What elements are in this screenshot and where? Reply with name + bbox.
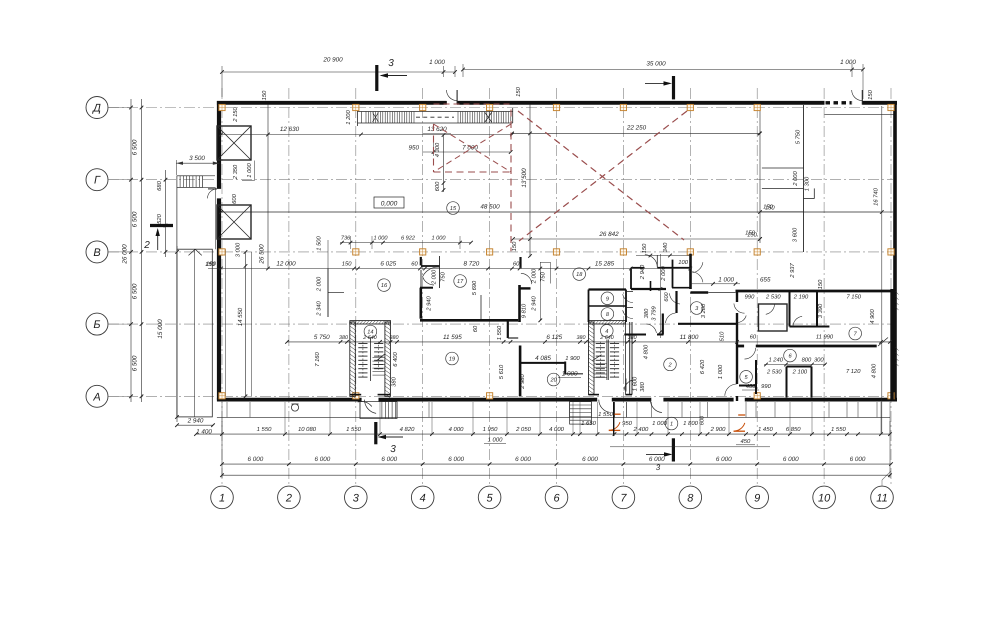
svg-text:450: 450 bbox=[740, 438, 751, 445]
apartment mid wall y346 bbox=[737, 345, 877, 348]
svg-text:3 500: 3 500 bbox=[189, 155, 205, 162]
dim 2 150 rotated bbox=[232, 106, 239, 122]
top stair / ramp band bbox=[358, 108, 513, 126]
column marker axis 7/Д bbox=[620, 104, 626, 110]
svg-text:4 300: 4 300 bbox=[434, 142, 441, 157]
grid axis 9 vertical dash-dot line bbox=[756, 88, 758, 486]
grid axis 4 vertical dash-dot line bbox=[422, 88, 424, 486]
dim 60 y268 a bbox=[411, 261, 418, 268]
svg-text:18: 18 bbox=[576, 272, 583, 278]
bottom wall bbox=[217, 398, 897, 402]
apartment partition x756 bbox=[739, 360, 756, 394]
dim 1 000 underlined porch bbox=[484, 437, 506, 444]
dim 13 620 underlined bbox=[423, 126, 451, 134]
dim 11 990 bbox=[816, 334, 834, 341]
vertical dim line x760 bbox=[758, 104, 762, 243]
dim 655 bbox=[760, 277, 771, 284]
partition x328 upper ext bbox=[327, 240, 329, 269]
dim 950 bbox=[409, 145, 420, 152]
dim 2 000 rotated hall bbox=[316, 276, 323, 292]
dim 2 940 rotated m1 bbox=[639, 264, 646, 280]
section 3 top-left arrow bbox=[380, 73, 408, 77]
svg-text:4 085: 4 085 bbox=[535, 355, 551, 362]
svg-text:В: В bbox=[93, 247, 100, 259]
svg-text:20 900: 20 900 bbox=[322, 57, 343, 64]
svg-text:1 240: 1 240 bbox=[768, 357, 783, 364]
dim 150 top rotated bbox=[261, 90, 268, 100]
wall y287 stub bbox=[420, 287, 433, 289]
dim line 26 842 bbox=[511, 237, 762, 241]
svg-text:150: 150 bbox=[763, 204, 773, 211]
dim 6 400 rotated bbox=[392, 351, 399, 366]
wall x676 vertical bbox=[675, 291, 677, 313]
dim 990 bbox=[745, 293, 755, 300]
svg-text:Г: Г bbox=[94, 175, 101, 187]
wall x690 vertical bbox=[689, 254, 692, 289]
svg-text:300: 300 bbox=[814, 357, 824, 364]
room circle 4 bbox=[601, 325, 614, 338]
svg-text:1 000: 1 000 bbox=[374, 236, 389, 242]
svg-text:22 250: 22 250 bbox=[626, 125, 647, 132]
dim 100 bbox=[678, 259, 688, 266]
dim 6 500 (Б-А) bbox=[132, 355, 139, 371]
door leaf apt mid wall bbox=[878, 338, 888, 347]
apartment partition x817 bbox=[816, 291, 818, 327]
room circle 3 bbox=[690, 302, 703, 315]
dim 3 600 rotated bbox=[792, 227, 799, 242]
dim 150 rotated x519 bbox=[511, 241, 518, 251]
column marker axis 3/Д bbox=[353, 104, 359, 110]
dim 6 000 (6) bbox=[582, 456, 598, 463]
svg-text:150: 150 bbox=[641, 243, 648, 253]
dim 3 500 line bbox=[176, 160, 219, 175]
annex dim 2 940 bbox=[175, 418, 215, 428]
annex gate mark bbox=[189, 249, 202, 255]
svg-text:380: 380 bbox=[628, 335, 637, 341]
svg-text:0,000: 0,000 bbox=[381, 201, 398, 208]
svg-text:6 025: 6 025 bbox=[380, 261, 396, 268]
svg-text:1 000: 1 000 bbox=[432, 236, 447, 242]
door arc apt left low bbox=[725, 384, 737, 396]
right wall hatch bbox=[895, 291, 898, 366]
svg-text:5 750: 5 750 bbox=[314, 334, 330, 341]
svg-text:2 940: 2 940 bbox=[639, 264, 646, 280]
svg-text:990: 990 bbox=[761, 383, 771, 390]
dim 9 810 rotated bbox=[521, 303, 528, 318]
dim line 150 right top bbox=[761, 204, 803, 212]
dim 1 000 top left bbox=[429, 59, 445, 66]
svg-text:3 600: 3 600 bbox=[792, 227, 799, 242]
dim 750 rotated r18 bbox=[540, 271, 547, 281]
door arc room8 bbox=[623, 308, 633, 319]
svg-text:2 190: 2 190 bbox=[793, 293, 809, 300]
dim 1 200 rotated bbox=[345, 109, 352, 124]
dim bracket 750 bbox=[540, 262, 551, 283]
dim 1 000 sub-row bbox=[652, 420, 667, 427]
svg-text:Д: Д bbox=[91, 103, 101, 115]
room circle 8 bbox=[601, 308, 614, 321]
svg-text:2 350: 2 350 bbox=[232, 164, 239, 180]
apartment top wall y291 bbox=[691, 291, 892, 293]
dim 1 650 sub-row bbox=[581, 420, 596, 427]
dim 150 rotated x875 bbox=[867, 89, 874, 99]
svg-text:2 000: 2 000 bbox=[792, 170, 799, 186]
svg-text:400: 400 bbox=[746, 383, 756, 390]
dim 2 900 row1 bbox=[710, 426, 726, 433]
dim 2 190 bbox=[793, 293, 809, 300]
grid axis 8 vertical dash-dot line bbox=[689, 88, 691, 486]
wall x520 lower vertical bbox=[519, 346, 522, 397]
svg-text:60: 60 bbox=[513, 261, 520, 268]
crane zone big X bbox=[518, 111, 687, 241]
partition x439 bbox=[439, 256, 441, 288]
porch step lines right of B bbox=[615, 402, 627, 417]
svg-text:19: 19 bbox=[449, 357, 455, 363]
dim 380 d bbox=[628, 335, 637, 341]
dim 1 550 row1 bbox=[346, 426, 361, 433]
column marker axis 11/А bbox=[888, 393, 894, 399]
yard inner face line bbox=[214, 187, 216, 249]
svg-text:380: 380 bbox=[643, 308, 650, 318]
wall y320 long bbox=[420, 319, 518, 322]
bottom extension lines bbox=[222, 421, 890, 478]
porch band line bbox=[217, 416, 890, 418]
svg-text:9: 9 bbox=[606, 296, 609, 302]
dim 2 530 apt top bbox=[765, 293, 781, 300]
svg-text:12 630: 12 630 bbox=[280, 126, 300, 133]
dim 6 500 (Д-Г) bbox=[132, 139, 139, 155]
column marker axis 4/В bbox=[420, 249, 426, 255]
svg-text:340: 340 bbox=[662, 242, 669, 252]
vertical dim line 4 300/600 bbox=[442, 133, 446, 192]
svg-text:150: 150 bbox=[511, 241, 518, 251]
axis circle 11 with offset leader bbox=[871, 471, 894, 509]
apartment left wall x737 bbox=[736, 291, 738, 401]
svg-text:6 125: 6 125 bbox=[546, 334, 562, 341]
svg-text:680: 680 bbox=[156, 180, 163, 190]
svg-text:7: 7 bbox=[620, 492, 627, 504]
stairwell B door bottom bbox=[624, 379, 633, 392]
svg-text:6 500: 6 500 bbox=[132, 139, 139, 155]
room circle 1 bbox=[665, 417, 678, 430]
dim 26 000 total bbox=[122, 244, 129, 265]
column marker axis 5/В bbox=[487, 249, 493, 255]
dim 2 350 rotated bbox=[232, 164, 239, 180]
svg-text:2 640: 2 640 bbox=[599, 335, 614, 341]
dim 6 125 bbox=[546, 334, 562, 341]
svg-text:11: 11 bbox=[876, 492, 887, 504]
dim 800 bbox=[802, 357, 812, 364]
vertical dim line 16 740 bbox=[880, 106, 884, 434]
svg-text:3 390: 3 390 bbox=[817, 303, 824, 318]
dim 26 500 rotated bbox=[259, 244, 266, 265]
svg-text:3: 3 bbox=[353, 492, 360, 504]
dim 15 000 bbox=[157, 319, 164, 339]
svg-text:950: 950 bbox=[622, 420, 633, 427]
svg-text:2 940: 2 940 bbox=[187, 418, 204, 425]
section 3 bottom-left arrow bbox=[378, 435, 404, 439]
svg-text:750: 750 bbox=[540, 271, 547, 281]
svg-text:2 000: 2 000 bbox=[316, 276, 323, 292]
dim 2 940 rotated r17 bbox=[426, 295, 433, 311]
vertical dim line 13 500 bbox=[528, 104, 532, 258]
dim 2 100 bbox=[792, 369, 808, 376]
svg-text:1 650: 1 650 bbox=[581, 420, 596, 427]
dim 340 rotated bbox=[662, 242, 669, 252]
column marker axis 5/Д bbox=[487, 104, 493, 110]
svg-text:150: 150 bbox=[515, 86, 522, 96]
svg-text:4 000: 4 000 bbox=[449, 426, 464, 433]
dim 7 160 rotated bbox=[314, 351, 321, 366]
svg-text:12 000: 12 000 bbox=[276, 261, 296, 268]
dim 1 950 row1 bbox=[483, 426, 498, 433]
dim line 7 000 bbox=[423, 140, 513, 156]
grid axis 2 vertical dash-dot line bbox=[288, 88, 290, 486]
svg-text:6 850: 6 850 bbox=[786, 426, 801, 433]
pilaster box X upper bbox=[217, 126, 251, 160]
level mark 0,000 bbox=[374, 197, 404, 208]
door arcs x690 bbox=[692, 262, 703, 282]
svg-text:1 000: 1 000 bbox=[562, 371, 578, 378]
dim 6 000 (1) bbox=[248, 456, 264, 463]
dim 7 150 bbox=[846, 293, 861, 300]
svg-text:11 800: 11 800 bbox=[680, 334, 699, 341]
room circle 9 bbox=[601, 292, 614, 305]
dim 380 b bbox=[390, 335, 399, 341]
svg-text:6 000: 6 000 bbox=[783, 456, 799, 463]
room circle 19 bbox=[446, 352, 459, 365]
svg-text:2: 2 bbox=[285, 492, 292, 504]
dim 2 940 rotated r18 bbox=[531, 295, 538, 311]
svg-text:2 000: 2 000 bbox=[431, 269, 438, 285]
dim 11 800 bbox=[680, 334, 699, 341]
porch verticals bbox=[222, 402, 890, 434]
dim 11 595 bbox=[443, 334, 462, 341]
axis circle Б bbox=[86, 313, 108, 335]
svg-text:35 000: 35 000 bbox=[646, 61, 666, 68]
axis circle 10 bbox=[813, 486, 836, 509]
svg-text:16: 16 bbox=[381, 283, 388, 289]
svg-text:4: 4 bbox=[420, 492, 426, 504]
dim 750 rotated r17 bbox=[440, 271, 447, 281]
dim 1 600 rotated bbox=[632, 376, 639, 391]
dim 1 450 row1 bbox=[758, 426, 773, 433]
dim 1 240 underlined bbox=[764, 357, 827, 367]
svg-text:100: 100 bbox=[678, 259, 688, 266]
dim 10 080 row1 bbox=[298, 426, 317, 433]
dim 12 000 bbox=[276, 261, 296, 268]
svg-text:6 500: 6 500 bbox=[132, 211, 139, 227]
dim 300 bbox=[814, 357, 824, 364]
svg-text:6 000: 6 000 bbox=[582, 456, 598, 463]
grid axis 7 vertical dash-dot line bbox=[622, 88, 624, 486]
axis circle Д bbox=[86, 97, 108, 119]
dim 1 000 apt bbox=[690, 277, 740, 286]
svg-text:1 550: 1 550 bbox=[598, 411, 613, 418]
dim 600 rotated porch bbox=[700, 415, 706, 425]
svg-text:5: 5 bbox=[487, 492, 494, 504]
svg-text:16 740: 16 740 bbox=[873, 187, 880, 206]
svg-text:2 400: 2 400 bbox=[633, 426, 649, 433]
dim 1 550 rotated mid bbox=[496, 325, 503, 340]
entrance B door jamb bbox=[613, 402, 615, 436]
grid axis А horizontal dash-dot line bbox=[108, 395, 893, 397]
svg-text:1 500: 1 500 bbox=[316, 235, 323, 250]
dim 6 000 (9) bbox=[783, 456, 799, 463]
dim 1 300 rotated right bbox=[804, 176, 811, 191]
svg-text:60: 60 bbox=[750, 334, 757, 341]
svg-text:600: 600 bbox=[231, 193, 238, 203]
section 2 arrow bbox=[156, 228, 160, 250]
top wall bbox=[217, 101, 897, 105]
apartment closet bbox=[787, 367, 812, 398]
dim 12 630 bbox=[280, 126, 300, 133]
wall y289 segment B bbox=[631, 288, 666, 290]
dim 150 rotated apt bbox=[817, 279, 824, 289]
svg-text:6 400: 6 400 bbox=[392, 351, 399, 366]
svg-text:3 799: 3 799 bbox=[651, 305, 658, 320]
svg-text:1 000: 1 000 bbox=[488, 437, 503, 444]
svg-text:2 150: 2 150 bbox=[232, 106, 239, 122]
axis circle А bbox=[86, 385, 108, 407]
grid axis 6 vertical dash-dot line bbox=[556, 88, 558, 486]
grid axis В horizontal dash-dot line bbox=[108, 251, 893, 253]
dim 1 000 rotated upper-left bbox=[242, 161, 255, 181]
orange door arc 1 bbox=[609, 414, 621, 430]
dim 1 550 row1 bbox=[257, 426, 272, 433]
dim 680 bbox=[156, 180, 163, 190]
svg-text:736: 736 bbox=[341, 236, 351, 242]
axis circle 3 bbox=[345, 486, 368, 509]
svg-text:2 000: 2 000 bbox=[660, 265, 667, 281]
dim 6 000 (5) bbox=[515, 456, 531, 463]
door arc corridor bbox=[666, 313, 676, 323]
svg-text:11 990: 11 990 bbox=[816, 334, 834, 341]
svg-text:4 900: 4 900 bbox=[869, 308, 876, 323]
column marker axis 11/Д bbox=[888, 104, 894, 110]
wall room16 left vertical bbox=[328, 269, 344, 318]
room20 partition bbox=[520, 362, 583, 375]
dim 48 500 bbox=[480, 204, 500, 211]
column marker axis 3/В bbox=[353, 249, 359, 255]
room circle 18 bbox=[573, 268, 586, 281]
dim 1 800 sub-row bbox=[683, 420, 698, 427]
axis circle 5 bbox=[478, 486, 501, 509]
dim 736 bbox=[341, 236, 351, 242]
svg-text:2 937: 2 937 bbox=[789, 262, 796, 278]
column marker axis 6/Д bbox=[553, 104, 559, 110]
grid axis 1 vertical dash-dot line bbox=[221, 88, 223, 486]
svg-text:26 500: 26 500 bbox=[259, 244, 266, 265]
dim 6 420 rotated bbox=[699, 359, 706, 374]
dim 6 850 row1 bbox=[786, 426, 801, 433]
door arc apt top bbox=[734, 304, 745, 314]
apartment small room box bbox=[759, 304, 788, 331]
dim line 12 630 / 13 620 bbox=[219, 133, 514, 137]
dim 60 apt bbox=[750, 334, 757, 341]
column marker axis 9/Д bbox=[754, 104, 760, 110]
dim 5 750 y342 bbox=[314, 334, 330, 341]
door lintel y266 bbox=[421, 265, 440, 267]
svg-text:2 980: 2 980 bbox=[519, 373, 526, 389]
grid axis 11 vertical dash-dot line bbox=[890, 88, 892, 486]
svg-text:А: А bbox=[92, 391, 100, 403]
section 3 top-left label bbox=[388, 58, 394, 69]
grid axis Г horizontal dash-dot line bbox=[108, 179, 893, 181]
svg-text:150: 150 bbox=[206, 261, 216, 268]
dim 150 left bbox=[205, 261, 215, 268]
dim 26 842 bbox=[598, 231, 619, 238]
svg-text:1 950: 1 950 bbox=[483, 426, 498, 433]
svg-text:1 000: 1 000 bbox=[652, 420, 667, 427]
door arc apt small room bbox=[766, 304, 775, 314]
closet bottom wall bbox=[672, 287, 691, 289]
door arc room3 top bbox=[670, 293, 681, 304]
axis circle 4 bbox=[411, 486, 434, 509]
door in top wall left bbox=[447, 90, 458, 105]
dim 6 000 (4) bbox=[448, 456, 464, 463]
svg-text:2 340: 2 340 bbox=[316, 300, 323, 316]
svg-text:8 720: 8 720 bbox=[464, 261, 480, 268]
dim 13 500 rotated bbox=[521, 168, 528, 188]
svg-text:1 000: 1 000 bbox=[246, 162, 253, 177]
dim 6 500 (В-Б) bbox=[132, 283, 139, 299]
svg-text:15: 15 bbox=[450, 206, 457, 212]
svg-text:750: 750 bbox=[440, 271, 447, 281]
svg-text:6 000: 6 000 bbox=[448, 456, 464, 463]
svg-text:6 000: 6 000 bbox=[649, 456, 665, 463]
dim 600 rotated left bbox=[231, 193, 238, 203]
dim 150 small right bbox=[747, 232, 757, 239]
svg-text:9 810: 9 810 bbox=[521, 303, 528, 318]
svg-text:Б: Б bbox=[93, 319, 100, 331]
svg-text:2 900: 2 900 bbox=[710, 426, 726, 433]
svg-text:20: 20 bbox=[549, 378, 557, 384]
entrance door arc B bbox=[599, 400, 610, 413]
svg-text:2 940: 2 940 bbox=[426, 295, 433, 311]
svg-text:2: 2 bbox=[143, 240, 150, 251]
svg-text:11 595: 11 595 bbox=[443, 334, 462, 341]
dim 15 285 bbox=[595, 261, 615, 268]
top dimension line 20 900 / 1 000 bbox=[220, 66, 457, 97]
dim 4 300 rotated bbox=[434, 142, 441, 157]
dim line y342 bbox=[285, 340, 892, 344]
wall x519 vertical bbox=[520, 257, 521, 322]
bottom total row bbox=[220, 473, 892, 477]
svg-text:60: 60 bbox=[472, 325, 479, 332]
dim 400 underlined bbox=[742, 383, 759, 390]
room circle 15 bbox=[447, 202, 460, 215]
section 3 top-left marker bbox=[375, 65, 378, 91]
dim 1 000 row b bbox=[432, 236, 447, 242]
column marker axis 1/А bbox=[219, 393, 225, 399]
axis circle 6 bbox=[545, 486, 568, 509]
svg-text:7 120: 7 120 bbox=[846, 368, 861, 375]
dim 6 000 (3) bbox=[381, 456, 397, 463]
section 2 marker line bbox=[150, 224, 173, 227]
grid axis Д horizontal dash-dot line bbox=[108, 107, 893, 109]
dim 2 340 rotated hall bbox=[316, 300, 323, 316]
svg-text:380: 380 bbox=[639, 381, 646, 391]
svg-text:1 450: 1 450 bbox=[758, 426, 773, 433]
svg-text:14 550: 14 550 bbox=[237, 307, 244, 326]
dim 380 rotated b bbox=[643, 308, 650, 318]
svg-text:1: 1 bbox=[219, 492, 225, 504]
svg-text:7 150: 7 150 bbox=[846, 293, 861, 300]
svg-text:600: 600 bbox=[664, 291, 670, 301]
crane zone small X bbox=[434, 124, 512, 172]
dim 4 820 row1 bbox=[400, 426, 415, 433]
